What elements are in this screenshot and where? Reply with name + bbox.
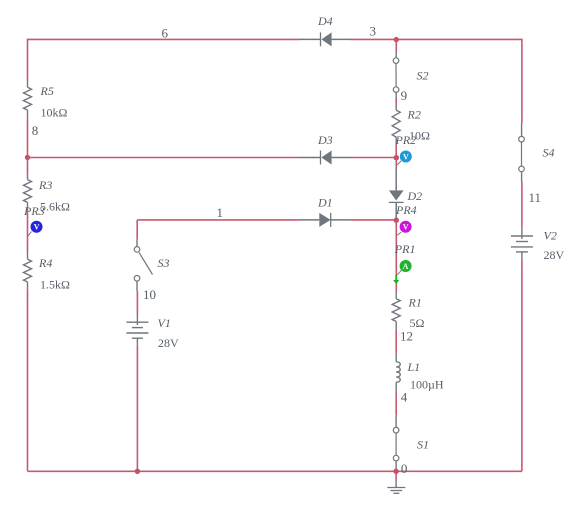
probe PR1 current direction arrow bbox=[393, 275, 399, 284]
resistor R1 bbox=[392, 292, 400, 330]
switch S4 label bbox=[543, 145, 555, 159]
svg-text:PR4: PR4 bbox=[395, 203, 417, 217]
switch S3 bbox=[134, 239, 152, 291]
probe PR4 label bbox=[395, 203, 417, 217]
svg-text:D3: D3 bbox=[317, 133, 333, 147]
node 1 label bbox=[217, 205, 224, 220]
resistor R3 bbox=[24, 173, 32, 210]
svg-text:8: 8 bbox=[32, 123, 39, 138]
svg-text:1.5kΩ: 1.5kΩ bbox=[40, 278, 70, 292]
wire R1 to L1 bbox=[395, 329, 397, 353]
svg-text:4: 4 bbox=[401, 390, 408, 405]
node 4 label bbox=[401, 390, 408, 405]
inductor L1 bbox=[396, 353, 400, 392]
svg-text:PR3: PR3 bbox=[23, 204, 45, 218]
resistor R3 label bbox=[38, 178, 52, 192]
battery V2 bbox=[511, 228, 533, 259]
svg-text:V: V bbox=[403, 223, 409, 232]
resistor R2 value 10Ohm bbox=[409, 129, 430, 143]
battery V2 label bbox=[544, 229, 557, 243]
resistor R4 bbox=[24, 253, 32, 290]
wire middle column from node 3 bbox=[395, 40, 397, 51]
node 0 junction bbox=[393, 469, 398, 474]
ground bbox=[387, 471, 405, 493]
switch S2 label bbox=[417, 68, 429, 82]
wire V1 to bottom bbox=[136, 346, 138, 472]
probe PR2 label bbox=[395, 133, 417, 147]
node below R2 junction bbox=[394, 155, 399, 160]
resistor R2 label bbox=[407, 107, 421, 121]
resistor R5 bbox=[24, 79, 32, 118]
svg-text:R2: R2 bbox=[407, 107, 421, 121]
svg-text:PR2: PR2 bbox=[395, 133, 417, 147]
V1 bottom junction bbox=[135, 469, 140, 474]
svg-text:R4: R4 bbox=[38, 256, 52, 270]
svg-text:V: V bbox=[34, 223, 40, 232]
wire top net 6 right segment bbox=[351, 38, 522, 40]
svg-text:R3: R3 bbox=[38, 178, 52, 192]
wire left rail lower bbox=[27, 289, 29, 471]
wire L1 to S1 bbox=[395, 393, 397, 416]
wire left rail between node 8 and R3 bbox=[27, 158, 29, 174]
resistor R1 value 5Ohm bbox=[410, 316, 425, 330]
svg-text:S4: S4 bbox=[543, 145, 555, 159]
node 8 label bbox=[32, 123, 39, 138]
node 6 label bbox=[162, 25, 169, 40]
wire node PR4 down to R1 bbox=[395, 220, 397, 291]
switch S2 bbox=[393, 51, 399, 98]
node PR4 junction bbox=[394, 218, 399, 223]
wire left rail between R5 and node 8 bbox=[27, 118, 29, 157]
svg-text:10: 10 bbox=[143, 287, 156, 302]
inductor L1 value 100uH bbox=[410, 377, 444, 391]
svg-text:V: V bbox=[403, 153, 409, 162]
node 11 label bbox=[529, 190, 542, 205]
inductor L1 label bbox=[407, 360, 421, 374]
svg-text:28V: 28V bbox=[544, 248, 565, 262]
svg-text:S2: S2 bbox=[417, 68, 429, 82]
diode D1 label bbox=[317, 195, 333, 209]
wire bottom net 0 bbox=[28, 470, 522, 472]
diode D4 label bbox=[317, 14, 333, 28]
svg-text:3: 3 bbox=[370, 24, 377, 39]
wire S2 to R2 bbox=[395, 98, 397, 104]
probe PR3 label bbox=[23, 204, 45, 218]
diode D3 label bbox=[317, 133, 333, 147]
wire node to D2 bbox=[395, 158, 397, 168]
probe PR1 current probe bbox=[397, 260, 411, 275]
switch S1 label bbox=[417, 437, 429, 451]
wire net 1 horizontal bbox=[137, 219, 300, 221]
svg-text:L1: L1 bbox=[407, 360, 421, 374]
svg-text:D2: D2 bbox=[407, 189, 423, 203]
probe PR4 voltage probe bbox=[397, 221, 411, 236]
svg-text:1: 1 bbox=[217, 205, 224, 220]
resistor R3 value 5.6kOhm bbox=[40, 199, 70, 213]
diode D3 bbox=[300, 151, 351, 165]
probe PR2 voltage probe bbox=[397, 151, 412, 165]
node 12 label bbox=[400, 329, 413, 344]
battery V1 label bbox=[158, 316, 171, 330]
wire net 1 vertical to S3 bbox=[136, 220, 138, 239]
battery V1 value 28V bbox=[158, 336, 179, 350]
wire top net 6 left segment bbox=[28, 38, 301, 40]
node 9 label bbox=[401, 88, 408, 103]
svg-text:12: 12 bbox=[400, 329, 413, 344]
probe PR1 label bbox=[394, 242, 416, 256]
wire net 8 row to D3 bbox=[28, 157, 301, 159]
probe PR3 voltage probe bbox=[28, 221, 43, 237]
wire S3 to V1 bbox=[136, 291, 138, 314]
node 3 junction bbox=[394, 37, 399, 42]
node 8 junction bbox=[25, 155, 30, 160]
wire left rail between R3 and R4 bbox=[27, 210, 29, 253]
resistor R1 label bbox=[408, 296, 422, 310]
svg-text:D1: D1 bbox=[317, 195, 333, 209]
node 3 label bbox=[370, 24, 377, 39]
switch S1 bbox=[393, 415, 399, 469]
switch S4 bbox=[519, 123, 525, 181]
svg-text:V2: V2 bbox=[544, 229, 557, 243]
node 10 label bbox=[143, 287, 156, 302]
resistor R2 bbox=[392, 104, 400, 145]
svg-text:6: 6 bbox=[162, 25, 169, 40]
wire D1 to node PR4 bbox=[351, 219, 397, 221]
svg-text:S1: S1 bbox=[417, 437, 429, 451]
svg-text:A: A bbox=[403, 262, 409, 271]
wire S4 to V2 bbox=[521, 182, 523, 228]
wire right rail upper bbox=[521, 39, 523, 124]
wire D3 to node below R2 bbox=[351, 157, 397, 159]
svg-text:11: 11 bbox=[529, 190, 542, 205]
battery V1 bbox=[126, 314, 148, 346]
svg-text:V1: V1 bbox=[158, 316, 171, 330]
diode D2 bbox=[389, 168, 404, 218]
node 0 label bbox=[401, 461, 408, 476]
resistor R4 value 1.5kOhm bbox=[40, 278, 70, 292]
wire R2 to node bbox=[395, 145, 397, 158]
svg-text:10kΩ: 10kΩ bbox=[41, 106, 68, 120]
wire right rail lower bbox=[521, 259, 523, 471]
diode D1 bbox=[300, 213, 351, 227]
svg-text:PR1: PR1 bbox=[394, 242, 416, 256]
svg-text:9: 9 bbox=[401, 88, 408, 103]
diode D2 label bbox=[407, 189, 423, 203]
battery V2 value 28V bbox=[544, 248, 565, 262]
svg-text:100µH: 100µH bbox=[410, 377, 444, 391]
resistor R5 label bbox=[40, 84, 54, 98]
svg-text:S3: S3 bbox=[158, 256, 170, 270]
resistor R4 label bbox=[38, 256, 52, 270]
resistor R5 value 10kOhm bbox=[41, 106, 68, 120]
svg-text:28V: 28V bbox=[158, 336, 179, 350]
switch S3 label bbox=[158, 256, 170, 270]
diode D4 bbox=[300, 32, 351, 46]
wire left rail upper bbox=[27, 39, 29, 80]
svg-text:R1: R1 bbox=[408, 296, 422, 310]
svg-text:D4: D4 bbox=[317, 14, 333, 28]
svg-text:0: 0 bbox=[401, 461, 408, 476]
svg-text:R5: R5 bbox=[40, 84, 54, 98]
